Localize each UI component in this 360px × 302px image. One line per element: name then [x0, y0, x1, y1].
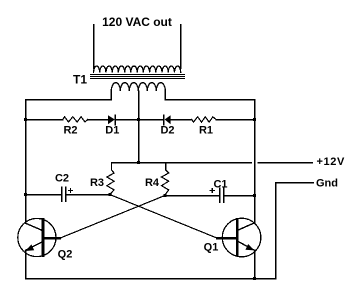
- wire R4 to C1: [165, 195, 219, 197]
- svg-text:R4: R4: [145, 177, 160, 189]
- diode D2: [164, 115, 171, 125]
- wire ground lead: [276, 182, 314, 184]
- transistor Q2: [18, 218, 60, 256]
- svg-text:R2: R2: [63, 125, 77, 137]
- junction dot bottom right rail: [253, 277, 256, 280]
- svg-text:120 VAC out: 120 VAC out: [102, 15, 172, 29]
- wire right rail lower: [254, 250, 256, 278]
- junction dot R4 bottom: [163, 194, 166, 197]
- svg-text:D2: D2: [160, 125, 174, 137]
- wire bottom bus: [26, 278, 276, 280]
- wire left rail lower: [25, 250, 27, 278]
- wire D2 to R1: [171, 119, 192, 121]
- resistor R4: [162, 163, 169, 196]
- wire cross-couple R3 to Q1 base: [110, 195, 218, 239]
- junction dot center tap +12V: [137, 161, 140, 164]
- wire +12V feed: [112, 162, 252, 164]
- wire C2 row left: [26, 194, 62, 196]
- svg-text:R3: R3: [90, 177, 104, 189]
- wire left rail upper: [25, 100, 27, 224]
- wire top bus right: [165, 99, 254, 101]
- transistor Q1: [217, 218, 261, 257]
- wire top bus left: [26, 99, 112, 101]
- junction dot C2 row left rail: [24, 193, 27, 196]
- wire center tap: [138, 91, 140, 163]
- wire R2 to D1: [88, 119, 108, 121]
- capacitor C1: [210, 188, 224, 202]
- wire C2 to R3: [66, 194, 110, 196]
- wire D1 to D2: [115, 119, 163, 121]
- wire secondary right lead: [180, 25, 182, 69]
- svg-text:Q2: Q2: [58, 249, 73, 261]
- svg-text:T1: T1: [73, 73, 87, 87]
- wire secondary left lead: [93, 25, 95, 69]
- transformer T1 core: [91, 75, 185, 79]
- svg-text:C2: C2: [55, 173, 69, 185]
- svg-text:C1: C1: [213, 179, 227, 191]
- junction dot right base row: [253, 118, 256, 121]
- svg-text:R1: R1: [199, 125, 213, 137]
- wire cross-couple R4 to Q2 base: [60, 196, 165, 239]
- svg-text:+12V: +12V: [317, 156, 345, 168]
- wire +12V lead out: [258, 162, 312, 164]
- wire right rail upper: [254, 100, 256, 223]
- wire R1 to right rail: [216, 119, 255, 121]
- resistor R2: [63, 117, 88, 122]
- resistor R1: [192, 117, 216, 122]
- wire R2 left lead: [26, 119, 63, 121]
- capacitor C2: [62, 187, 73, 201]
- junction dot C1 row right rail: [253, 194, 256, 197]
- wire C1 to right rail: [224, 195, 255, 197]
- diode D1: [108, 115, 115, 125]
- transformer T1 primary winding: [111, 83, 165, 100]
- transformer T1 secondary winding: [94, 66, 181, 73]
- svg-text:Gnd: Gnd: [316, 178, 338, 190]
- junction dot center tap base row: [137, 118, 140, 121]
- wire ground riser: [275, 183, 277, 279]
- junction dot left base row: [24, 118, 27, 121]
- svg-text:Q1: Q1: [204, 242, 219, 254]
- junction dot R3 bottom: [108, 193, 111, 196]
- svg-text:D1: D1: [105, 125, 119, 137]
- resistor R3: [107, 163, 114, 195]
